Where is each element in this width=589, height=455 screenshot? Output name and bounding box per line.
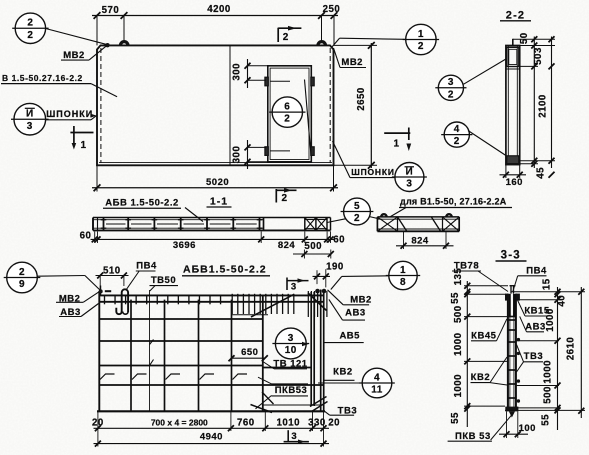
- svg-text:КВ15: КВ15: [524, 305, 549, 316]
- svg-text:4: 4: [454, 124, 460, 135]
- svg-text:40: 40: [557, 295, 568, 307]
- svg-text:МВ2: МВ2: [350, 294, 372, 305]
- svg-text:8: 8: [400, 277, 406, 288]
- svg-text:ПКВ 53: ПКВ 53: [455, 431, 491, 442]
- svg-text:2: 2: [418, 41, 424, 52]
- svg-text:ТВ3: ТВ3: [524, 351, 543, 362]
- svg-text:2: 2: [27, 18, 33, 29]
- svg-text:10: 10: [285, 345, 297, 356]
- svg-text:4940: 4940: [200, 432, 223, 443]
- svg-text:2: 2: [354, 213, 360, 224]
- svg-text:6: 6: [284, 102, 290, 113]
- svg-text:2: 2: [19, 267, 25, 278]
- svg-text:1000: 1000: [453, 332, 464, 356]
- svg-text:300: 300: [232, 63, 243, 81]
- svg-text:55: 55: [450, 412, 461, 424]
- svg-text:КВ45: КВ45: [471, 330, 496, 341]
- svg-text:1010: 1010: [277, 417, 301, 428]
- svg-text:ШПОНКИ: ШПОНКИ: [46, 109, 93, 119]
- svg-text:3: 3: [288, 333, 294, 344]
- svg-text:3: 3: [291, 431, 297, 442]
- svg-text:для В1.5-50, 27.16-2.2А: для В1.5-50, 27.16-2.2А: [400, 196, 507, 206]
- svg-text:1: 1: [393, 139, 399, 150]
- svg-text:500: 500: [543, 386, 554, 404]
- svg-text:2650: 2650: [356, 87, 367, 111]
- svg-text:МВ2: МВ2: [341, 57, 363, 68]
- svg-text:500: 500: [304, 241, 322, 252]
- svg-text:55: 55: [450, 292, 461, 304]
- svg-text:824: 824: [411, 236, 429, 247]
- svg-text:570: 570: [102, 5, 120, 16]
- svg-text:1: 1: [418, 29, 424, 40]
- svg-text:ТВ78: ТВ78: [454, 260, 479, 271]
- svg-text:3: 3: [448, 77, 454, 88]
- svg-text:2: 2: [27, 30, 33, 41]
- svg-text:700 х 4 = 2800: 700 х 4 = 2800: [151, 417, 208, 427]
- svg-text:45: 45: [536, 167, 547, 179]
- svg-text:330: 330: [308, 417, 326, 428]
- svg-text:824: 824: [278, 240, 296, 251]
- svg-text:ПВ4: ПВ4: [526, 265, 547, 276]
- svg-text:1: 1: [400, 265, 406, 276]
- svg-text:5: 5: [354, 201, 360, 212]
- svg-text:650: 650: [241, 347, 258, 358]
- svg-text:190: 190: [326, 262, 344, 273]
- svg-text:3: 3: [406, 179, 412, 190]
- svg-text:4: 4: [374, 372, 380, 383]
- svg-text:2: 2: [283, 32, 289, 43]
- svg-text:5020: 5020: [206, 177, 229, 188]
- svg-text:ТВ50: ТВ50: [151, 275, 176, 286]
- svg-text:АВ3: АВ3: [525, 321, 546, 332]
- svg-text:1000: 1000: [543, 360, 554, 384]
- svg-text:КВ2: КВ2: [471, 372, 490, 383]
- svg-text:КВ2: КВ2: [333, 366, 352, 377]
- svg-text:4200: 4200: [207, 4, 231, 15]
- svg-text:503: 503: [533, 47, 544, 65]
- svg-text:1-1: 1-1: [210, 195, 228, 207]
- svg-text:АВ3: АВ3: [345, 308, 366, 319]
- svg-text:60: 60: [333, 235, 345, 246]
- svg-text:ПВ4: ПВ4: [136, 260, 157, 271]
- svg-text:15: 15: [542, 278, 553, 290]
- svg-text:20: 20: [328, 417, 340, 428]
- svg-text:500: 500: [453, 305, 464, 323]
- svg-text:1000: 1000: [453, 374, 464, 398]
- svg-text:2610: 2610: [566, 337, 577, 361]
- svg-text:И: И: [26, 109, 34, 120]
- svg-text:2: 2: [448, 89, 454, 100]
- svg-text:60: 60: [80, 230, 92, 241]
- svg-text:3-3: 3-3: [501, 249, 521, 261]
- svg-text:2: 2: [284, 114, 290, 125]
- svg-text:АБВ1.5-50-2.2: АБВ1.5-50-2.2: [183, 264, 267, 276]
- svg-text:50: 50: [519, 32, 530, 44]
- svg-text:20: 20: [92, 417, 104, 428]
- svg-text:55: 55: [541, 414, 552, 426]
- svg-text:760: 760: [237, 417, 255, 428]
- svg-text:3: 3: [291, 282, 297, 293]
- svg-text:3: 3: [27, 121, 33, 132]
- svg-text:1: 1: [80, 140, 86, 151]
- svg-text:100: 100: [519, 423, 536, 434]
- svg-text:2: 2: [281, 193, 287, 204]
- svg-text:3696: 3696: [173, 240, 196, 251]
- svg-text:ШПОНКИ: ШПОНКИ: [351, 167, 395, 177]
- svg-text:2-2: 2-2: [506, 9, 526, 21]
- svg-text:И: И: [406, 166, 414, 177]
- svg-text:В 1.5-50.27.16-2.2: В 1.5-50.27.16-2.2: [2, 73, 83, 83]
- svg-text:ТВ 121: ТВ 121: [273, 359, 307, 370]
- svg-text:11: 11: [371, 385, 383, 396]
- svg-text:160: 160: [506, 177, 523, 188]
- svg-text:ПКВ53: ПКВ53: [275, 385, 308, 396]
- svg-text:2100: 2100: [538, 94, 549, 118]
- svg-text:9: 9: [19, 279, 25, 290]
- svg-text:АБВ 1.5-50-2.2: АБВ 1.5-50-2.2: [105, 197, 179, 208]
- svg-text:510: 510: [103, 265, 121, 276]
- svg-text:300: 300: [232, 146, 243, 164]
- svg-text:2: 2: [454, 136, 460, 147]
- svg-text:АВ5: АВ5: [339, 331, 360, 342]
- svg-text:250: 250: [323, 4, 341, 15]
